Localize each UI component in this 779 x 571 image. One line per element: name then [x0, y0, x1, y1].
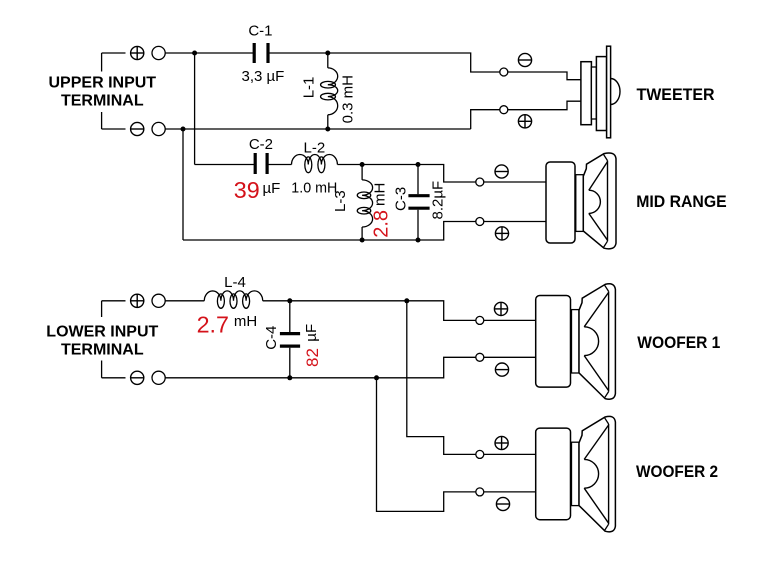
junction C3 top — [416, 162, 421, 167]
junction C3 bottom — [416, 238, 421, 243]
terminal circle lower input + — [152, 294, 165, 307]
svg-text:WOOFER 1: WOOFER 1 — [637, 333, 720, 352]
junction L1 bottom — [325, 127, 330, 132]
terminal symbol − woofer2 — [496, 497, 509, 510]
terminal symbol − tweeter — [518, 53, 531, 66]
wire midrange feed drop — [194, 53, 196, 165]
terminal symbol + woofer2 — [495, 436, 508, 449]
svg-text:39: 39 — [234, 177, 260, 203]
svg-text:µF: µF — [263, 180, 281, 197]
wire L1 top lead — [327, 53, 329, 68]
junction woofer2 + branch — [404, 298, 409, 303]
svg-text:L-3: L-3 — [332, 190, 349, 212]
terminal symbol − midrange — [495, 165, 508, 178]
svg-text:L-4: L-4 — [224, 274, 246, 291]
terminal circle woofer1 top — [476, 316, 484, 324]
svg-text:µF: µF — [303, 324, 320, 342]
wire upper − rail — [165, 128, 471, 130]
terminal symbol − upper input — [131, 122, 144, 135]
inductor L4 — [204, 291, 262, 301]
svg-text:MID RANGE: MID RANGE — [636, 192, 727, 211]
junction woofer2 − branch — [374, 375, 379, 380]
svg-text:C-3: C-3 — [393, 187, 410, 211]
svg-text:8.2µF: 8.2µF — [429, 181, 446, 220]
capacitor C3 — [417, 165, 419, 195]
wire tweeter top to speaker — [508, 72, 581, 80]
junction L3 top — [360, 162, 365, 167]
wire L4 to woofer1 terminal — [263, 301, 476, 321]
terminal symbol + woofer1 — [494, 302, 507, 315]
terminal circle upper input − — [152, 122, 165, 135]
svg-text:WOOFER 2: WOOFER 2 — [636, 462, 718, 481]
terminal symbol − lower input — [131, 371, 144, 384]
terminal circle woofer1 bottom — [476, 353, 484, 361]
terminal symbol + upper input — [131, 46, 144, 59]
terminal circle tweeter bottom — [500, 106, 508, 114]
svg-text:C-2: C-2 — [249, 136, 273, 153]
svg-text:TWEETER: TWEETER — [637, 85, 715, 104]
speaker woofer 1 — [536, 296, 571, 388]
capacitor C2 — [254, 153, 257, 174]
junction node A (+ rail to midrange feed) — [192, 51, 197, 56]
terminal symbol + midrange — [495, 227, 508, 240]
svg-text:C-1: C-1 — [248, 22, 272, 39]
junction L1 top — [325, 51, 330, 56]
inductor L3 — [361, 165, 363, 180]
svg-text:L-2: L-2 — [304, 139, 326, 156]
speaker tweeter — [581, 62, 592, 125]
junction node B (− rail to midrange return) — [181, 127, 186, 132]
svg-text:mH: mH — [234, 313, 257, 330]
wire woofer2 top to speaker — [484, 453, 536, 455]
terminal circle lower input − — [152, 371, 165, 384]
svg-text:L-1: L-1 — [301, 77, 318, 99]
wire upper + rail — [165, 52, 254, 54]
svg-text:mH: mH — [371, 183, 388, 206]
upper input terminal bracket — [102, 52, 126, 54]
terminal symbol + tweeter — [518, 115, 531, 128]
junction L3 bottom — [360, 238, 365, 243]
svg-text:82: 82 — [303, 348, 322, 367]
terminal symbol + lower input — [131, 294, 144, 307]
wire C2 to L2 — [267, 164, 291, 166]
terminal circle upper input + — [152, 46, 165, 59]
wire woofer2 − branch — [377, 378, 476, 512]
svg-text:C-4: C-4 — [263, 326, 280, 350]
svg-text:LOWER INPUT: LOWER INPUT — [46, 323, 158, 340]
speaker mid range — [546, 162, 575, 243]
lower input terminal bracket — [102, 300, 126, 302]
wire woofer1 bottom to speaker — [484, 356, 536, 358]
terminal circle woofer2 top — [476, 450, 484, 458]
junction C4 bottom — [287, 375, 292, 380]
svg-text:2.7: 2.7 — [197, 312, 229, 338]
wire L2 to midrange terminal — [337, 165, 475, 183]
wire midrange bottom rail — [183, 222, 476, 241]
terminal circle midrange bottom — [476, 218, 484, 226]
svg-text:0.3 mH: 0.3 mH — [340, 75, 357, 123]
wire tweeter − branch — [471, 110, 500, 129]
wire midrange bottom to speaker — [484, 221, 546, 223]
wire C1 to L1 top — [268, 52, 328, 54]
wire midrange return drop — [182, 129, 184, 240]
svg-text:TERMINAL: TERMINAL — [61, 93, 144, 110]
wire lower + to L4 — [165, 300, 204, 302]
wire L1 bottom lead — [327, 115, 329, 129]
capacitor C4 — [289, 301, 291, 332]
terminal symbol − woofer1 — [495, 363, 508, 376]
wire woofer2 + branch — [407, 301, 476, 455]
wire tweeter + branch — [328, 53, 500, 72]
svg-text:TERMINAL: TERMINAL — [61, 341, 144, 358]
wire woofer2 bottom to speaker — [484, 491, 536, 493]
svg-text:3,3 µF: 3,3 µF — [242, 68, 285, 85]
junction C4 top — [287, 298, 292, 303]
wire feed to C2 — [195, 164, 256, 166]
wire woofer1 top to speaker — [484, 319, 536, 321]
terminal circle woofer2 bottom — [476, 488, 484, 496]
svg-text:1.0 mH: 1.0 mH — [291, 179, 337, 196]
wire tweeter bottom to speaker — [508, 101, 581, 110]
inductor L2 — [292, 155, 338, 165]
wire midrange top to speaker — [484, 181, 546, 183]
svg-text:UPPER INPUT: UPPER INPUT — [49, 75, 157, 92]
terminal circle tweeter top — [500, 68, 508, 76]
wire lower − rail — [165, 357, 476, 378]
terminal circle midrange top — [476, 178, 484, 186]
capacitor C1 — [253, 43, 256, 63]
speaker woofer 2 — [536, 428, 571, 520]
inductor L1 — [328, 68, 338, 115]
svg-text:2.8: 2.8 — [371, 210, 393, 238]
